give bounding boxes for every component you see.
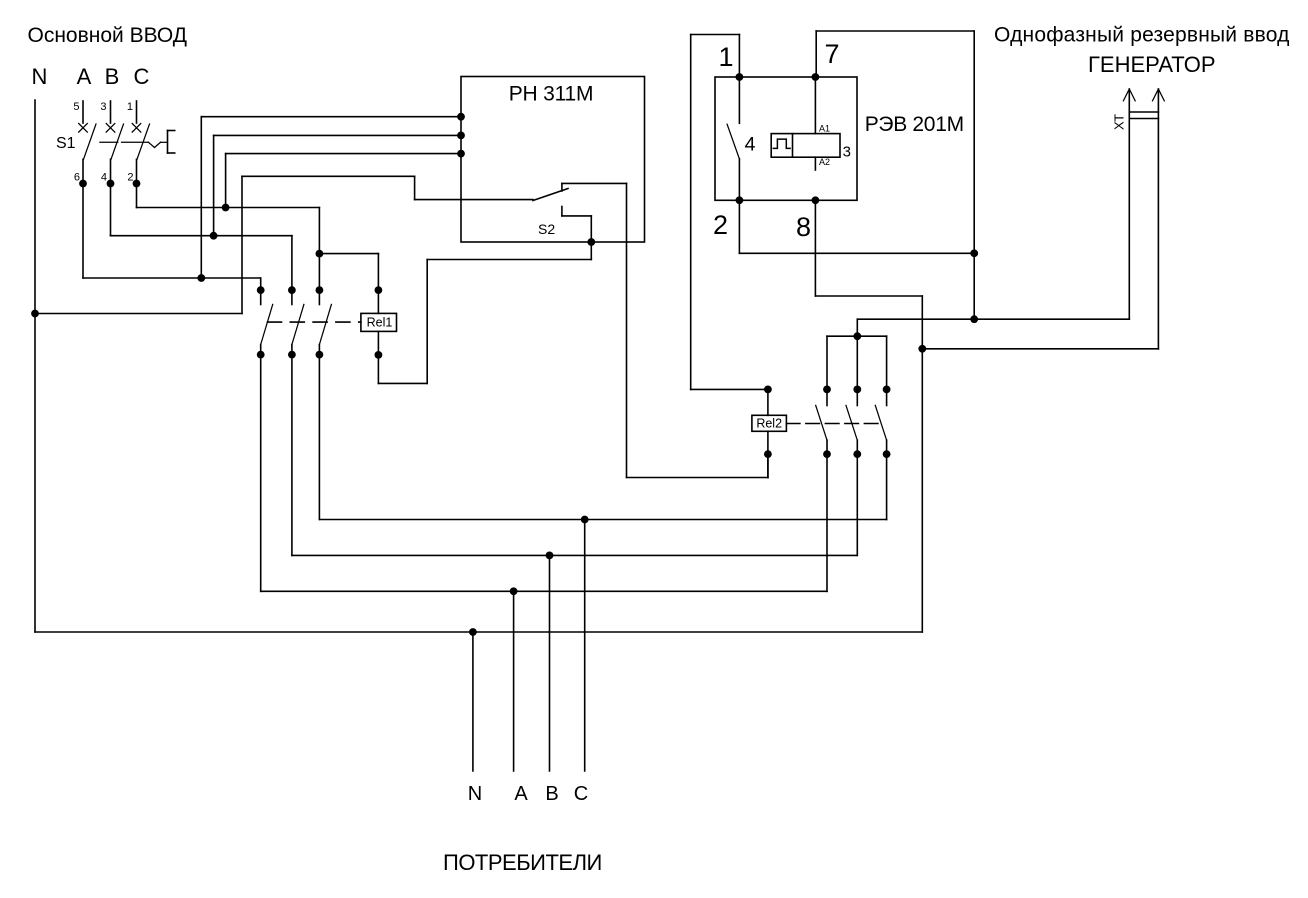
svg-text:С: С	[574, 783, 588, 805]
svg-text:ХТ: ХТ	[1112, 114, 1127, 130]
svg-text:7: 7	[824, 39, 839, 69]
svg-text:N: N	[32, 64, 48, 89]
svg-text:2: 2	[127, 172, 133, 184]
svg-text:ПОТРЕБИТЕЛИ: ПОТРЕБИТЕЛИ	[443, 850, 602, 875]
svg-text:РН 311М: РН 311М	[509, 83, 594, 106]
svg-text:С: С	[134, 64, 150, 89]
svg-text:А2: А2	[819, 157, 830, 167]
svg-text:1: 1	[127, 101, 133, 113]
svg-text:S2: S2	[538, 221, 555, 237]
svg-text:2: 2	[713, 210, 728, 240]
svg-text:1: 1	[718, 42, 733, 72]
svg-text:А: А	[514, 783, 528, 805]
svg-text:6: 6	[74, 172, 80, 184]
svg-text:Rel1: Rel1	[367, 316, 393, 330]
svg-text:5: 5	[73, 101, 79, 113]
svg-text:3: 3	[100, 101, 106, 113]
svg-text:N: N	[468, 783, 482, 805]
svg-text:Однофазный резервный ввод: Однофазный резервный ввод	[994, 24, 1290, 47]
svg-text:Rel2: Rel2	[756, 417, 782, 431]
svg-text:В: В	[545, 783, 558, 805]
svg-text:8: 8	[796, 212, 811, 242]
svg-text:А1: А1	[819, 124, 830, 134]
svg-text:А: А	[77, 64, 92, 89]
svg-text:4: 4	[745, 134, 756, 156]
svg-text:Основной ВВОД: Основной ВВОД	[28, 24, 188, 47]
svg-text:4: 4	[101, 172, 107, 184]
svg-text:3: 3	[843, 143, 851, 160]
svg-text:РЭВ 201М: РЭВ 201М	[865, 113, 964, 136]
svg-text:S1: S1	[56, 135, 76, 152]
svg-text:В: В	[105, 64, 120, 89]
svg-text:ГЕНЕРАТОР: ГЕНЕРАТОР	[1088, 52, 1216, 77]
